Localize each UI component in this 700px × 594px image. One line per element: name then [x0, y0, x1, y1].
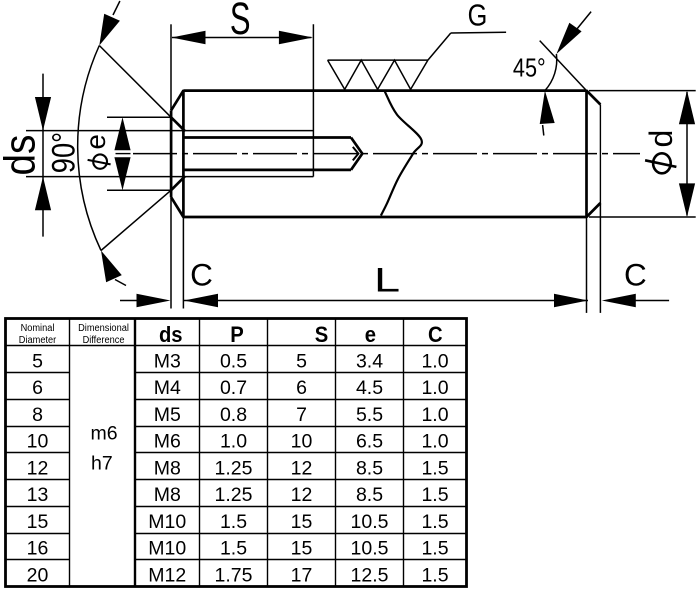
svg-text:m6: m6 [91, 422, 118, 444]
90deg arc top arrow tail [113, 1, 120, 15]
90deg construction line bottom [101, 190, 171, 250]
svg-text:1.5: 1.5 [421, 511, 448, 533]
svg-text:0.8: 0.8 [220, 404, 247, 426]
svg-text:5.5: 5.5 [356, 404, 383, 426]
svg-text:5: 5 [296, 350, 307, 372]
L dimension left arrow [184, 294, 218, 308]
phi symbol of phi-d circle [653, 153, 671, 173]
table row separator 3 data [135, 426, 467, 428]
svg-text:13: 13 [27, 484, 49, 506]
table row separator 5 col1 [6, 479, 70, 481]
svg-text:M8: M8 [154, 484, 181, 506]
ds dimension bottom arrow [35, 177, 51, 211]
phi-e center tick [116, 153, 131, 155]
table row separator 2 data [135, 399, 467, 401]
svg-text:8.5: 8.5 [356, 457, 383, 479]
45deg arc bottom arrow [540, 91, 555, 124]
S dimension right arrow [279, 31, 313, 45]
S dimension left arrow [172, 31, 206, 45]
phi-d extension line top [589, 90, 696, 92]
svg-text:G: G [468, 0, 488, 32]
svg-text:8: 8 [32, 404, 43, 426]
svg-text:15: 15 [291, 511, 313, 533]
table vertical line P-S [267, 319, 269, 587]
svg-text:L: L [374, 261, 400, 299]
table thick divider left of ds column [134, 319, 136, 587]
svg-text:h7: h7 [91, 453, 113, 475]
center line [133, 153, 640, 155]
table row separator 1 col1 [6, 372, 70, 374]
svg-text:0.5: 0.5 [220, 350, 247, 372]
table row separator 4 data [135, 452, 467, 454]
table row separator 7 data [135, 533, 467, 535]
svg-text:1.5: 1.5 [421, 538, 448, 560]
svg-text:M4: M4 [154, 377, 181, 399]
left face extension line below [170, 197, 172, 308]
left C arrow tail [120, 300, 138, 302]
svg-text:1.25: 1.25 [215, 457, 253, 479]
drill point inner chevron [353, 147, 359, 161]
thread symbol zigzag triangles [328, 60, 428, 89]
L dimension line [184, 300, 588, 302]
L dimension right arrow [554, 294, 588, 308]
wavy partial-section boundary [381, 91, 422, 215]
svg-text:M8: M8 [154, 457, 181, 479]
svg-text:M10: M10 [148, 538, 186, 560]
svg-text:M6: M6 [154, 431, 181, 453]
svg-text:3.4: 3.4 [356, 350, 383, 372]
svg-text:S: S [315, 323, 328, 347]
svg-text:6.5: 6.5 [356, 431, 383, 453]
svg-text:17: 17 [291, 564, 313, 586]
table vertical line S-e [335, 319, 337, 587]
svg-text:1.5: 1.5 [421, 457, 448, 479]
svg-text:C: C [190, 257, 213, 293]
left chamfer extension line below [182, 217, 184, 309]
90deg dimension arc [78, 46, 101, 251]
table row separator 5 data [135, 479, 467, 481]
svg-text:1.0: 1.0 [421, 377, 448, 399]
svg-text:1.0: 1.0 [421, 350, 448, 372]
pin right chamfer bottom [587, 203, 601, 217]
S dimension line [172, 37, 311, 39]
svg-text:C: C [624, 257, 647, 293]
svg-text:45°: 45° [513, 55, 546, 83]
phi-e dimension upper arrow [114, 117, 130, 150]
pin body top edge [183, 89, 586, 92]
90deg arc top arrow [99, 14, 120, 46]
phi-e dimension lower arrow [114, 157, 130, 190]
svg-text:d: d [643, 130, 679, 148]
45deg arc top arrow tail [577, 12, 592, 30]
table vertical line col1-col2 [69, 319, 71, 587]
table row separator 4 col1 [6, 452, 70, 454]
45deg chamfer extension line [540, 41, 587, 91]
table outer border [6, 319, 467, 587]
svg-text:ds: ds [159, 323, 183, 347]
phi symbol of phi-d slash [645, 160, 676, 167]
ds dimension top arrow [35, 97, 51, 131]
countersink flank bottom [171, 176, 185, 190]
svg-text:1.5: 1.5 [220, 511, 247, 533]
svg-text:10.5: 10.5 [351, 538, 389, 560]
svg-text:90°: 90° [46, 132, 82, 173]
G underline [451, 31, 506, 34]
svg-text:M10: M10 [148, 511, 186, 533]
svg-text:10.5: 10.5 [351, 511, 389, 533]
45deg arc top arrow [556, 23, 581, 54]
table row separator 7 col1 [6, 533, 70, 535]
countersink flank top [171, 117, 185, 131]
svg-text:0.7: 0.7 [220, 377, 247, 399]
right face extension line below [599, 203, 601, 313]
pin left chamfer edge line [182, 90, 185, 218]
svg-text:M5: M5 [154, 404, 181, 426]
thread minor diameter top line [183, 136, 351, 139]
pin right chamfer top [587, 91, 601, 105]
svg-text:1.0: 1.0 [421, 431, 448, 453]
svg-text:12: 12 [291, 457, 313, 479]
svg-text:1.5: 1.5 [421, 484, 448, 506]
phi-d dimension line [686, 92, 688, 216]
phi-e extension line top [107, 116, 171, 118]
svg-text:Nominal: Nominal [21, 322, 55, 334]
svg-text:15: 15 [291, 538, 313, 560]
45deg arc bottom arrow tail [543, 125, 544, 136]
svg-text:S: S [230, 0, 251, 44]
thread major diameter top line with ds extension [26, 130, 313, 132]
45deg dimension arc [545, 54, 557, 91]
pin left chamfer top [171, 91, 183, 111]
svg-text:15: 15 [27, 511, 49, 533]
svg-text:P: P [230, 323, 243, 347]
table row separator 3 col1 [6, 426, 70, 428]
svg-text:M12: M12 [148, 564, 186, 586]
right C arrow tail [634, 300, 669, 302]
svg-text:1.75: 1.75 [215, 564, 253, 586]
90deg construction line top [99, 46, 171, 118]
right chamfer extension line below [586, 217, 588, 313]
ds dimension line [42, 74, 44, 237]
thread major diameter bottom line with ds extension [26, 176, 313, 178]
svg-text:5: 5 [32, 350, 43, 372]
svg-text:20: 20 [27, 564, 49, 586]
svg-text:16: 16 [27, 538, 49, 560]
thread symbol top line [328, 59, 428, 61]
drill point cone [351, 138, 362, 170]
svg-text:1.0: 1.0 [421, 404, 448, 426]
pin left face [170, 110, 173, 197]
S extension line left [170, 24, 172, 110]
svg-text:8.5: 8.5 [356, 484, 383, 506]
svg-text:12.5: 12.5 [351, 564, 389, 586]
right C dimension arrow [602, 294, 636, 308]
phi-d extension line bottom [589, 216, 696, 218]
svg-text:4.5: 4.5 [356, 377, 383, 399]
table row separator 8 data [135, 559, 467, 561]
table vertical line e-C [403, 319, 405, 587]
svg-text:1.5: 1.5 [421, 564, 448, 586]
phi-d top arrow [679, 91, 695, 125]
table row separator 6 col1 [6, 506, 70, 508]
svg-text:12: 12 [27, 457, 49, 479]
svg-text:10: 10 [291, 431, 313, 453]
table row separator 1 data [135, 372, 467, 374]
left C dimension arrow [137, 294, 171, 308]
pin left chamfer bottom [171, 197, 183, 217]
phi symbol of phi-e slash [88, 160, 111, 165]
svg-text:e: e [365, 323, 376, 347]
pin right end face [599, 105, 601, 204]
table row separator 2 col1 [6, 399, 70, 401]
svg-text:ds: ds [0, 135, 44, 176]
svg-text:1.0: 1.0 [220, 431, 247, 453]
pin right chamfer edge line [585, 90, 588, 218]
svg-text:Difference: Difference [83, 335, 125, 347]
90deg arc bottom arrow tail [115, 280, 126, 286]
svg-text:7: 7 [296, 404, 307, 426]
svg-text:1.25: 1.25 [215, 484, 253, 506]
svg-text:12: 12 [291, 484, 313, 506]
svg-text:Dimensional: Dimensional [78, 322, 129, 334]
svg-text:10: 10 [27, 431, 49, 453]
svg-text:6: 6 [32, 377, 43, 399]
table header separator [6, 345, 467, 347]
thread minor diameter bottom line [183, 169, 351, 172]
G leader line [428, 33, 451, 60]
phi-e extension line bottom [107, 189, 171, 191]
table row separator 8 col1 [6, 559, 70, 561]
phi symbol of phi-e circle [93, 154, 107, 168]
table row separator 6 data [135, 506, 467, 508]
svg-text:e: e [80, 134, 111, 149]
svg-text:6: 6 [296, 377, 307, 399]
svg-text:1.5: 1.5 [220, 538, 247, 560]
table vertical line ds-P [199, 319, 201, 587]
90deg arc bottom arrow [101, 251, 122, 283]
svg-text:Diameter: Diameter [19, 335, 57, 347]
pin body bottom edge [183, 216, 586, 219]
phi-d bottom arrow [679, 183, 695, 217]
thread end line and S extension [312, 24, 314, 176]
svg-text:M3: M3 [154, 350, 181, 372]
svg-text:C: C [428, 323, 443, 347]
